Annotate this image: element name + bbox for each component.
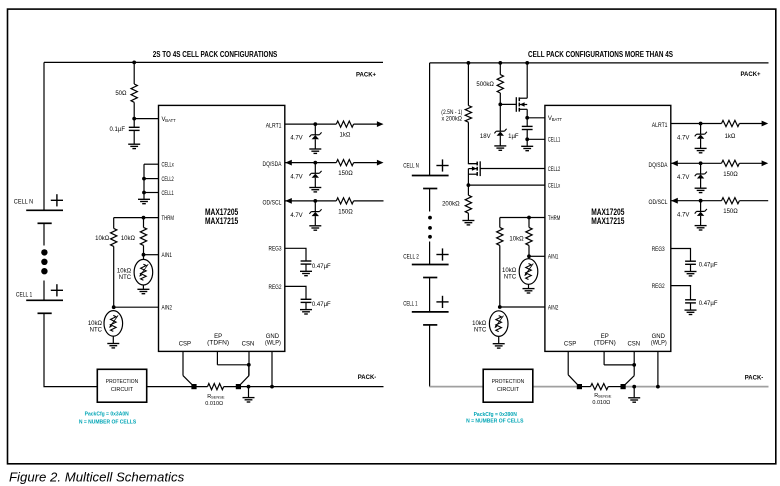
- pin label VBATT U1: [162, 117, 177, 123]
- wire 50ohm top lead: [133, 62, 135, 84]
- svg-text:4.7V: 4.7V: [677, 135, 689, 141]
- ground ALRT1 zener (right): [695, 148, 707, 152]
- wire CELL2 pin: [144, 178, 159, 180]
- wire OD zener lead: [314, 201, 316, 212]
- wire CSP diagonal: [183, 376, 194, 387]
- wire ALRT1 row U2: [671, 123, 762, 125]
- label 1k (left): [339, 133, 350, 139]
- svg-text:10kΩ: 10kΩ: [509, 237, 524, 243]
- svg-text:10kΩ: 10kΩ: [95, 236, 110, 242]
- pin label EP U2: [594, 334, 616, 347]
- svg-text:NTC: NTC: [90, 327, 103, 333]
- svg-text:CIRCUIT: CIRCUIT: [111, 387, 134, 393]
- svg-text:CELL2: CELL2: [548, 167, 561, 173]
- wire DQ/SDA row: [285, 162, 377, 164]
- junction square CSN sense: [236, 384, 241, 389]
- wire cell divider bus: [143, 164, 145, 192]
- svg-text:OD/SCL: OD/SCL: [263, 200, 283, 206]
- wire ALRT1 zener lead: [314, 124, 316, 135]
- resistor 200k: [465, 195, 471, 213]
- svg-text:PROTECTION: PROTECTION: [106, 379, 138, 385]
- pin label CELLx U2: [548, 184, 560, 190]
- label 4.7V DQ (left): [290, 174, 302, 180]
- svg-text:0.47µF: 0.47µF: [312, 302, 331, 308]
- junction CELL1 (right): [525, 137, 529, 141]
- arrow OD/SCL in: [285, 198, 292, 204]
- svg-text:(TDFN): (TDFN): [594, 341, 616, 347]
- pin label AIN1 U2: [548, 255, 559, 261]
- svg-text:10kΩ: 10kΩ: [117, 269, 132, 275]
- ground below NTC upper (right): [523, 289, 535, 293]
- battery CELL N (left): [26, 194, 63, 223]
- label 10k NTC upper (right): [502, 268, 517, 280]
- wire EP to CSN: [217, 364, 248, 366]
- label 0.47uF REG3 (left): [312, 264, 331, 270]
- wire DQ zener gnd lead: [314, 178, 316, 187]
- capacitor 0.1uF: [129, 127, 140, 130]
- svg-text:CIRCUIT: CIRCUIT: [497, 387, 520, 393]
- wire right stack drop: [429, 63, 431, 176]
- svg-text:ALRT1: ALRT1: [652, 123, 668, 129]
- svg-text:DQ/SDA: DQ/SDA: [263, 162, 282, 168]
- label 150 OD (right): [723, 209, 738, 215]
- label PACK- (left): [358, 375, 377, 381]
- figure caption: [9, 470, 185, 485]
- resistor 10k right branch (right): [526, 227, 532, 245]
- junction DQ zener: [313, 161, 317, 165]
- capacitor 0.47uF REG3 (left): [301, 261, 312, 264]
- protection circuit box (left): [97, 369, 146, 402]
- battery CELL N (right): [412, 159, 449, 188]
- arrow ALRT1 out (right): [762, 121, 769, 127]
- junction CELL1: [142, 191, 146, 195]
- svg-text:ALRT1: ALRT1: [266, 124, 282, 130]
- wire CSN diagonal U2: [623, 376, 634, 387]
- label 0.47uF REG2 (right): [699, 301, 718, 307]
- svg-text:150Ω: 150Ω: [338, 171, 353, 177]
- wire cell bus ground lead: [143, 193, 145, 199]
- zener 4.7V ALRT1 (right): [695, 132, 707, 139]
- junction string tap: [467, 61, 471, 65]
- svg-text:1kΩ: 1kΩ: [339, 133, 350, 139]
- svg-text:AIN2: AIN2: [162, 306, 173, 312]
- wire CSN diagonal: [238, 376, 249, 387]
- resistor RSENSE (right): [582, 384, 621, 390]
- wire cap 0.1uF top lead: [133, 119, 135, 128]
- junction square CSN sense (right): [621, 384, 626, 389]
- pin label AIN2 U2: [548, 305, 559, 311]
- svg-text:4.7V: 4.7V: [677, 213, 689, 219]
- svg-text:10kΩ: 10kΩ: [88, 321, 103, 327]
- wire CELL1 pin: [144, 192, 159, 194]
- arrow DQ/SDA out (right): [762, 160, 769, 166]
- junction GND rail (right): [656, 385, 660, 389]
- svg-text:500kΩ: 500kΩ: [476, 82, 494, 88]
- wire CSN stub: [248, 351, 250, 375]
- svg-text:NTC: NTC: [504, 274, 517, 280]
- wire right 10k top lead: [143, 218, 145, 228]
- wire DQ zener lead: [314, 163, 316, 174]
- wire left 10k top lead: [113, 218, 115, 229]
- resistor 1k (right): [722, 120, 740, 126]
- ground below 18V zener: [494, 146, 506, 150]
- U1 part number label: [205, 207, 238, 226]
- wire gate Q1: [500, 103, 516, 105]
- label PACK+ (left): [356, 72, 377, 78]
- pin label EP U1: [207, 334, 229, 347]
- svg-text:10kΩ: 10kΩ: [472, 321, 487, 327]
- wire OD zener gnd lead: [314, 216, 316, 225]
- wire REG3 out U2: [671, 249, 691, 262]
- wire above CELL 2: [429, 242, 431, 265]
- pin label ALRT1 U2: [652, 123, 668, 129]
- label CELL 2 (right): [403, 254, 419, 260]
- svg-text:NTC: NTC: [474, 327, 487, 333]
- pin label CELL1 U1: [162, 191, 175, 197]
- capacitor 0.47uF REG2 (left): [301, 299, 312, 302]
- junction square CSP sense (right): [577, 384, 582, 389]
- wire CSP stub: [182, 351, 184, 375]
- resistor 500k: [497, 75, 503, 93]
- pin label DQ/SDA U2: [649, 163, 668, 169]
- junction CELL2: [142, 177, 146, 181]
- wire VBATT pin: [134, 118, 158, 120]
- svg-text:2S TO 4S CELL PACK CONFIGURATI: 2S TO 4S CELL PACK CONFIGURATIONS: [153, 50, 278, 59]
- arrow DQ/SDA out: [377, 160, 384, 166]
- wire ALRT1 zener gnd lead: [314, 139, 316, 148]
- zener 4.7V OD (left): [309, 209, 321, 216]
- label 1uF: [508, 134, 519, 140]
- junction ALRT1 zener: [313, 122, 317, 126]
- node PACK- rail (left): [148, 386, 384, 388]
- wire zener 18V gnd lead: [499, 136, 501, 146]
- label 4.7V ALRT1 (right): [677, 135, 689, 141]
- junction square CSP sense: [191, 384, 196, 389]
- svg-text:BATT: BATT: [165, 118, 176, 123]
- node PACK+ rail (left): [44, 61, 383, 63]
- wire ALRT1 zener lead (right): [700, 124, 702, 135]
- wire THRM pin: [114, 217, 159, 219]
- ground below CELL1: [521, 146, 533, 150]
- svg-text:(WLP): (WLP): [265, 341, 281, 347]
- resistor RSENSE (left): [208, 384, 224, 390]
- pin label CELL2 U1: [162, 177, 175, 183]
- svg-text:REG2: REG2: [652, 284, 666, 290]
- label 10k NTC upper: [117, 269, 132, 281]
- label 1k (right): [725, 134, 736, 140]
- wire CELL 1 to bottom rail: [44, 313, 97, 386]
- svg-text:0.010Ω: 0.010Ω: [205, 401, 223, 407]
- svg-text:CSP: CSP: [564, 341, 576, 347]
- node gate Q1 junction: [498, 103, 502, 107]
- U2 part number label: [591, 207, 624, 226]
- pin label CSP U1: [179, 341, 191, 347]
- ground DQ zener (left): [309, 188, 321, 192]
- wire ALRT1 zener gnd (right): [700, 139, 702, 148]
- label 10k right: [121, 236, 136, 242]
- wire 500k top lead: [499, 63, 501, 75]
- wire left 10k top lead (right): [499, 218, 501, 228]
- wire 200k top lead: [467, 185, 469, 195]
- resistor 150 DQ (left): [336, 160, 353, 166]
- pin label GND U1: [265, 334, 281, 347]
- arrow DQ/SDA in (right): [671, 160, 678, 166]
- wire CSP stub U2: [567, 351, 569, 374]
- label 200k: [442, 201, 460, 207]
- svg-text:PACK+: PACK+: [740, 72, 761, 78]
- svg-text:CELL 1: CELL 1: [16, 292, 33, 298]
- pin label AIN2 U1: [162, 306, 173, 312]
- junction GND rail: [270, 385, 274, 389]
- junction DQ zener (right): [699, 161, 703, 165]
- svg-text:0.1µF: 0.1µF: [110, 127, 126, 133]
- svg-text:1kΩ: 1kΩ: [725, 134, 736, 140]
- svg-text:CELLx: CELLx: [162, 163, 174, 169]
- stack continuation dots: [41, 249, 47, 274]
- pin label REG2 U2: [652, 284, 666, 290]
- battery CELL 1 (right): [412, 296, 449, 325]
- svg-text:SENSE: SENSE: [211, 395, 225, 400]
- junction AIN2: [112, 305, 116, 309]
- svg-text:18V: 18V: [480, 134, 491, 140]
- label 4.7V OD (right): [677, 213, 689, 219]
- ground below NTC lower: [107, 344, 119, 348]
- svg-text:0.47µF: 0.47µF: [699, 263, 718, 269]
- wire OD/SCL row: [285, 200, 384, 202]
- svg-text:REG3: REG3: [652, 247, 666, 253]
- label RSENSE (right): [592, 393, 611, 406]
- svg-text:DQ/SDA: DQ/SDA: [649, 163, 668, 169]
- svg-text:REG2: REG2: [269, 285, 283, 291]
- wire DQ/SDA row U2: [671, 162, 762, 164]
- pin label REG2 U1: [269, 285, 283, 291]
- resistor 150 OD (right): [722, 198, 740, 204]
- svg-text:(WLP): (WLP): [651, 341, 667, 347]
- svg-text:CELLx: CELLx: [548, 184, 560, 190]
- wire ALRT1 row: [285, 123, 377, 125]
- svg-text:N = NUMBER OF CELLS: N = NUMBER OF CELLS: [466, 418, 524, 424]
- pin label OD/SCL U2: [649, 200, 669, 206]
- svg-text:MAX17215: MAX17215: [591, 216, 624, 226]
- pin label REG3 U2: [652, 247, 666, 253]
- wire 500k bottom lead: [499, 93, 501, 104]
- wire CELL2 pin U2 (gate Q2): [480, 168, 545, 170]
- label 500k: [476, 82, 494, 88]
- wire cap 1uF bottom lead: [526, 130, 528, 140]
- wire VBATT pin U2: [527, 117, 545, 119]
- svg-text:10kΩ: 10kΩ: [502, 268, 517, 274]
- pin label AIN1 U1: [162, 253, 173, 259]
- wire CSN stub U2: [633, 351, 635, 375]
- pin label CELL1 U2: [548, 138, 561, 144]
- svg-text:MAX17215: MAX17215: [205, 216, 238, 226]
- wire REG3 cap gnd lead: [305, 264, 307, 271]
- wire DQ zener lead (right): [700, 163, 702, 174]
- ground ALRT1 zener (left): [309, 149, 321, 153]
- wire REG3 cap gnd (right): [690, 264, 692, 271]
- svg-text:PROTECTION: PROTECTION: [492, 379, 524, 385]
- wire AIN2 pin: [114, 306, 159, 308]
- ground below 200k: [462, 221, 474, 225]
- arrow ALRT1 out: [377, 121, 384, 127]
- junction rail ground: [247, 385, 251, 389]
- wire CELL1 gnd lead: [526, 139, 528, 146]
- label PACK- (right): [745, 376, 764, 382]
- label 10k left: [95, 236, 110, 242]
- label 10k NTC lower (right): [472, 321, 487, 333]
- wire 50ohm bottom lead: [133, 102, 135, 118]
- node VBATT junction: [132, 117, 136, 121]
- wire AIN1 lead (right): [528, 245, 530, 258]
- label 10k (right schem): [509, 237, 524, 243]
- junction EP-CSN (right): [632, 363, 636, 367]
- svg-text:10kΩ: 10kΩ: [121, 236, 136, 242]
- pin label THRM U2: [548, 216, 561, 222]
- svg-text:50Ω: 50Ω: [115, 91, 127, 97]
- label 10k NTC lower: [88, 321, 103, 333]
- wire CELL2-CELL1 (right): [429, 278, 431, 312]
- wire below CELL N: [43, 223, 45, 245]
- wire NTC upper ground lead: [142, 285, 144, 289]
- node PACK- rail (right, grey): [430, 386, 769, 388]
- wire REG2 out: [285, 286, 306, 299]
- junction THRM divider: [142, 216, 146, 220]
- wire GND stub: [271, 351, 273, 386]
- label 0.47uF REG2 (left): [312, 302, 331, 308]
- svg-text:CELL 1: CELL 1: [403, 302, 418, 308]
- capacitor 0.47uF REG2 (right): [685, 300, 696, 303]
- label 18V: [480, 134, 491, 140]
- label 150 DQ (left): [338, 171, 353, 177]
- wire string to FET source: [468, 122, 477, 163]
- wire REG3 out: [285, 248, 306, 261]
- label CELL 1 (right): [403, 302, 418, 308]
- capacitor 0.47uF REG3 (right): [685, 261, 696, 264]
- svg-text:AIN1: AIN1: [162, 253, 173, 259]
- junction rail ground (right): [632, 385, 636, 389]
- junction 50ohm tap: [132, 61, 136, 65]
- title left schematic: [153, 50, 278, 59]
- label 4.7V DQ (right): [677, 175, 689, 181]
- label (2.5N-1)x200k: [441, 110, 462, 122]
- label 50ohm: [115, 91, 127, 97]
- svg-text:CSN: CSN: [627, 341, 640, 347]
- label CELL 1 (left): [16, 292, 33, 298]
- wire CELL1 pin U2: [527, 138, 545, 140]
- wire NTC upper gnd lead (right): [528, 284, 530, 288]
- junction Q1 source tap: [525, 61, 529, 65]
- ground REG3 cap (right): [685, 272, 697, 276]
- ground REG2 cap (right): [685, 310, 697, 314]
- wire AIN1 pin: [144, 254, 159, 256]
- protection circuit box (right): [483, 369, 533, 402]
- wire cap 1uF top lead: [526, 118, 528, 127]
- label 0.47uF REG3 (right): [699, 263, 718, 269]
- junction OD zener (right): [699, 199, 703, 203]
- ground OD zener (left): [309, 226, 321, 230]
- pin label OD/SCL U1: [263, 200, 283, 206]
- svg-text:(TDFN): (TDFN): [207, 341, 229, 347]
- svg-text:PACK-: PACK-: [745, 376, 764, 382]
- junction AIN1: [142, 253, 146, 257]
- svg-text:GND: GND: [266, 334, 280, 340]
- svg-text:CELL 2: CELL 2: [403, 254, 419, 260]
- battery CELL 2 (right): [412, 248, 449, 277]
- svg-text:4.7V: 4.7V: [290, 174, 302, 180]
- wire NTC lower gnd lead (right): [498, 336, 500, 343]
- svg-text:x 200kΩ: x 200kΩ: [442, 117, 463, 123]
- svg-text:150Ω: 150Ω: [723, 172, 738, 178]
- svg-text:CELL1: CELL1: [548, 138, 561, 144]
- svg-text:SENSE: SENSE: [598, 394, 612, 399]
- zener 4.7V OD (right): [695, 209, 707, 216]
- pin label GND U2: [651, 334, 667, 347]
- config note left: [79, 411, 137, 425]
- wire CELLx pin U2: [468, 184, 545, 186]
- svg-text:THRM: THRM: [548, 216, 561, 222]
- wire left stack drop: [43, 62, 45, 210]
- resistor 10k left branch (right): [497, 227, 503, 245]
- ground DQ zener (right): [695, 188, 707, 192]
- ground below rail (right): [628, 398, 640, 402]
- wire NTC lower ground lead: [112, 336, 114, 343]
- label 4.7V OD (left): [290, 213, 302, 219]
- wire REG2 cap gnd (right): [690, 303, 692, 310]
- label 4.7V ALRT1 (left): [290, 136, 302, 142]
- svg-text:4.7V: 4.7V: [677, 175, 689, 181]
- wire AIN2 pin U2: [500, 306, 545, 308]
- pin label ALRT1 U1: [266, 124, 282, 130]
- label CELL N (left): [14, 200, 33, 206]
- thermistor 10k NTC lower (right): [489, 311, 508, 337]
- wire THRM pin U2: [500, 217, 545, 219]
- svg-text:EP: EP: [214, 334, 222, 340]
- svg-text:0.010Ω: 0.010Ω: [592, 400, 610, 406]
- resistor (2.5N-1)x200k: [465, 106, 471, 123]
- resistor 50ohm: [131, 84, 137, 102]
- config note right: [466, 412, 524, 424]
- transistor Q2 nFET: [468, 161, 480, 185]
- svg-text:PackCfg = 0x390N: PackCfg = 0x390N: [474, 412, 518, 418]
- wire REG2 out U2: [671, 286, 691, 300]
- wire GND stub U2: [657, 351, 659, 386]
- svg-text:(2.5N - 1): (2.5N - 1): [441, 110, 462, 116]
- wire CELL 1 to bottom rail (right): [429, 325, 431, 387]
- svg-text:1µF: 1µF: [508, 134, 519, 140]
- zener 4.7V DQ (left): [309, 171, 321, 178]
- pin label CELL2 U2: [548, 167, 561, 173]
- wire left branch to AIN2 (right): [499, 245, 501, 307]
- ground REG3 cap (left): [300, 271, 312, 275]
- label PACK+ (right): [740, 72, 761, 78]
- wire rail ground lead (right): [633, 387, 635, 398]
- wire REG2 cap gnd lead: [305, 302, 307, 309]
- ground below NTC lower (right): [493, 344, 505, 348]
- wire zener 18V lead: [499, 104, 501, 131]
- svg-text:0.47µF: 0.47µF: [312, 264, 331, 270]
- svg-text:PackCfg = 0x3A0N: PackCfg = 0x3A0N: [85, 411, 129, 417]
- pin label THRM U1: [162, 216, 175, 222]
- svg-text:REG3: REG3: [269, 247, 283, 253]
- junction THRM divider (right): [527, 216, 531, 220]
- wire OD/SCL row U2: [671, 200, 768, 202]
- capacitor 1uF: [522, 126, 533, 129]
- wire rail ground lead: [248, 387, 250, 398]
- svg-text:PACK+: PACK+: [356, 72, 377, 78]
- wire left branch to AIN2: [113, 246, 115, 307]
- pin label REG3 U1: [269, 247, 283, 253]
- svg-text:4.7V: 4.7V: [290, 213, 302, 219]
